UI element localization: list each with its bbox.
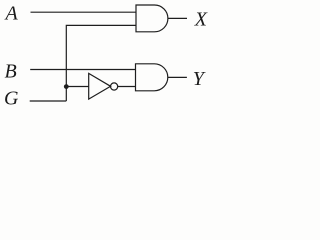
wire from node to inverter U3 input bbox=[66, 86, 88, 88]
and-gate U2 (output Y) bbox=[136, 64, 168, 91]
wire inverter U3 output to AND gate U2 bottom input bbox=[118, 86, 136, 88]
and-gate U1 (output X) bbox=[136, 5, 168, 32]
svg-text:Y: Y bbox=[193, 68, 206, 90]
inverter U3 bubble bbox=[111, 83, 118, 90]
wire from node G up to AND gate U1 bottom input bbox=[66, 25, 136, 101]
junction node dot on G branch bbox=[64, 84, 69, 89]
svg-text:B: B bbox=[5, 61, 17, 83]
wire U2 output to Y bbox=[168, 76, 187, 78]
svg-text:G: G bbox=[4, 87, 19, 109]
wire U1 output to X bbox=[168, 17, 187, 19]
wire B (input B to AND gate U2 top input) bbox=[30, 69, 135, 71]
inverter U3 (NOT gate triangle) bbox=[89, 73, 111, 99]
wire G (input G to vertical branch) bbox=[30, 100, 67, 102]
wire A (input A to AND gate U1 top input) bbox=[31, 11, 137, 13]
svg-text:A: A bbox=[4, 2, 19, 24]
svg-text:X: X bbox=[194, 8, 208, 30]
